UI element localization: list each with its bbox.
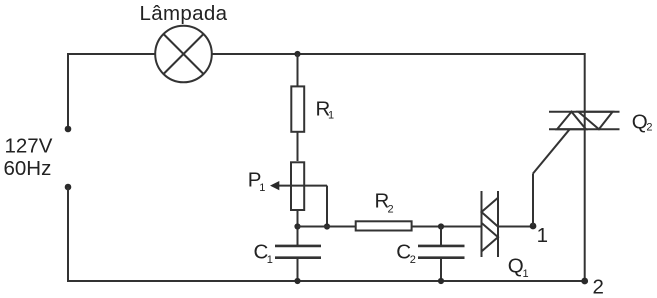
potentiometer P1 [291, 162, 304, 210]
wire C2 bottom to bottom rail [440, 258, 442, 281]
svg-text:60Hz: 60Hz [4, 157, 52, 180]
svg-text:1: 1 [523, 268, 529, 280]
wire middle branch top [297, 54, 299, 86]
gate wire diagonal [533, 129, 570, 173]
wire pot bottom down through junction to C1 [297, 211, 299, 246]
wire R2 to diac [412, 226, 482, 228]
svg-text:Lâmpada: Lâmpada [140, 2, 228, 25]
junction node top (dot) [294, 51, 300, 57]
wire right rail through triac to bottom [584, 112, 586, 281]
svg-text:2: 2 [593, 275, 604, 298]
svg-text:2: 2 [388, 203, 394, 215]
svg-text:2: 2 [646, 122, 652, 134]
svg-text:Q: Q [508, 255, 524, 278]
capacitor C1 [275, 246, 321, 258]
wire wiper down to junction [326, 186, 328, 227]
wire junction to R2 [298, 226, 356, 228]
junction dot bottom rail C1 [294, 278, 300, 284]
svg-text:1: 1 [328, 110, 334, 122]
triac Q2 [549, 112, 620, 130]
wire R1 to P1 [297, 132, 299, 162]
junction dot C2 top [438, 223, 444, 229]
wire left rail upper [67, 53, 69, 129]
wire left rail lower [67, 187, 69, 282]
wire right rail top [584, 53, 586, 112]
wire bottom rail [67, 280, 585, 282]
junction dot bottom rail C2 [438, 278, 444, 284]
wire C2 top [440, 227, 442, 247]
junction dot pot bottom [294, 223, 300, 229]
wire top rail left segment [68, 53, 155, 55]
diac Q1 [482, 191, 499, 257]
wire diac to node 1 [498, 226, 533, 228]
resistor R2 [356, 221, 412, 230]
node 1 (dot) [530, 223, 537, 230]
wire top rail right segment [212, 53, 585, 55]
lamp Lâmpada (circle with X) [155, 26, 212, 83]
wire C1 bottom to bottom rail [297, 258, 299, 281]
svg-text:2: 2 [410, 254, 416, 266]
svg-text:1: 1 [259, 182, 265, 194]
wiper arrow of P1 [270, 181, 327, 190]
svg-text:1: 1 [267, 254, 273, 266]
AC source terminal lower (dot) [65, 184, 72, 191]
junction dot wiper [324, 223, 330, 229]
AC source terminal upper (dot) [65, 126, 72, 133]
resistor R1 [291, 86, 304, 131]
svg-text:Q: Q [632, 110, 648, 133]
capacitor C2 [418, 246, 465, 258]
svg-text:1: 1 [537, 224, 548, 247]
gate wire vertical [532, 174, 534, 227]
node 2 (dot) [581, 278, 588, 285]
svg-text:127V: 127V [5, 134, 53, 157]
